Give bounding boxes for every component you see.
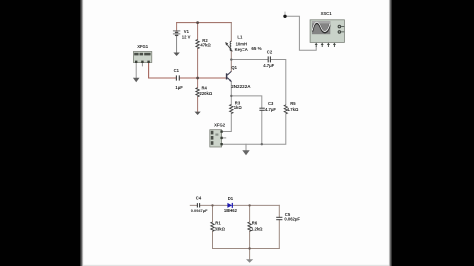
ground under V1 [173, 53, 179, 57]
node junction spine / C2 branch [230, 58, 232, 60]
wire R1 drop [212, 205, 214, 248]
wire bottom rail [223, 110, 286, 144]
wire C5 drop [278, 205, 280, 248]
capacitor C1 [176, 75, 179, 80]
left black pillar [0, 0, 80, 266]
svg-text:33kΩ: 33kΩ [215, 226, 226, 231]
wire V1 to ground [176, 36, 178, 53]
svg-text:D1: D1 [228, 196, 234, 201]
inductor L1 [230, 41, 231, 51]
svg-text:4.7kΩ: 4.7kΩ [287, 107, 299, 112]
svg-text:R1: R1 [215, 220, 221, 225]
wire base from XFG1 through C1 [149, 63, 227, 78]
wire spine collector [230, 23, 232, 72]
wire divider line R2/R4 [197, 23, 199, 112]
battery V1 [173, 31, 180, 36]
svg-text:R5: R5 [290, 101, 296, 106]
wire XFG2 middle stub [222, 137, 226, 139]
svg-text:R6: R6 [252, 220, 258, 225]
node junction R1 top [211, 204, 213, 206]
svg-text:1kΩ: 1kΩ [234, 105, 243, 110]
wire ground stem mid [245, 144, 247, 150]
right black pillar [389, 0, 392, 266]
bottom faint edge line [83, 265, 389, 266]
wire oscilloscope channel A [285, 16, 316, 50]
svg-text:XSC1: XSC1 [321, 11, 333, 16]
capacitor C2 [268, 56, 270, 62]
wire emitter branch to C3 [231, 82, 261, 108]
svg-text:1μF: 1μF [175, 85, 183, 90]
svg-text:V1: V1 [184, 29, 190, 34]
svg-text:4.7μF: 4.7μF [263, 63, 274, 68]
svg-text:C4: C4 [196, 196, 202, 201]
function generator XFG2 [210, 130, 223, 147]
svg-text:C1: C1 [174, 68, 180, 73]
svg-text:C3: C3 [268, 101, 274, 106]
ground under R4 [195, 112, 201, 115]
wire C2 branch [231, 60, 285, 105]
svg-text:Q1: Q1 [231, 65, 237, 70]
node junction base / divider [196, 77, 199, 80]
ground lower [246, 259, 253, 263]
resistor R2 [196, 40, 199, 49]
svg-text:2N2222A: 2N2222A [231, 84, 251, 89]
svg-text:XFG2: XFG2 [214, 123, 226, 128]
oscilloscope XSC1 [310, 20, 344, 47]
svg-text:12 V: 12 V [182, 35, 191, 40]
svg-text:4.7μF: 4.7μF [265, 107, 276, 112]
svg-text:1BH62: 1BH62 [224, 208, 238, 213]
svg-text:220kΩ: 220kΩ [200, 91, 213, 96]
svg-text:Key=A: Key=A [235, 47, 248, 52]
capacitor C4 [197, 203, 199, 207]
capacitor C5 [276, 217, 282, 219]
svg-text:XFG1: XFG1 [137, 44, 149, 49]
node junction top rail / R2 [196, 21, 199, 24]
node junction ground bottom [248, 247, 250, 249]
function generator XFG1 [133, 52, 151, 64]
wire battery drop [176, 23, 178, 31]
wire lower ground stem [249, 249, 251, 260]
wire lower top rail [190, 204, 279, 206]
wire XFG1 mid stub [141, 63, 143, 66]
svg-text:0.0947μF: 0.0947μF [191, 208, 208, 213]
ground under XFG1 [133, 78, 140, 82]
wire top rail [177, 22, 232, 24]
node junction emitter / C3 branch [230, 95, 232, 97]
svg-text:L1: L1 [237, 35, 243, 40]
transistor Q1 [227, 71, 232, 81]
svg-text:1.2kΩ: 1.2kΩ [251, 226, 263, 231]
resistor R4 [196, 88, 199, 97]
wire XFG1 ground drop [135, 63, 137, 78]
svg-text:C2: C2 [267, 49, 273, 54]
wire lower bottom rail [213, 248, 280, 250]
svg-text:65 %: 65 % [251, 46, 261, 51]
wire R6 drop [249, 205, 251, 248]
resistor R3 [230, 105, 233, 114]
diode D1 [227, 203, 232, 208]
ground mid rail [242, 150, 249, 155]
node junction bottom rail / C3 [261, 143, 263, 145]
node junction R6 top [248, 204, 250, 206]
wire R3 to XFG2 [223, 114, 232, 132]
svg-text:0.062μF: 0.062μF [284, 217, 300, 222]
svg-text:47kΩ: 47kΩ [200, 42, 211, 47]
node scope probe dot [283, 15, 286, 18]
resistor R5 [284, 105, 287, 114]
capacitor C3 [259, 108, 264, 110]
resistor R6 [248, 222, 251, 231]
resistor R1 [211, 222, 214, 231]
